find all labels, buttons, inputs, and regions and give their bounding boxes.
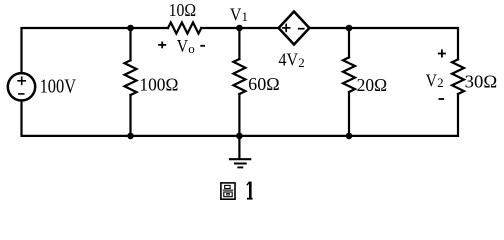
wire branch 20ohm bottom xyxy=(348,92,350,136)
node junction top at 20ohm xyxy=(346,25,353,32)
svg-text:V: V xyxy=(230,4,242,24)
label Vo plus sign xyxy=(158,42,166,49)
node junction bottom at 20ohm xyxy=(346,133,353,140)
label V2 minus sign xyxy=(439,98,445,100)
svg-text:4V: 4V xyxy=(279,50,299,70)
wire top-left segment xyxy=(22,28,169,73)
ground bar 1 xyxy=(230,158,250,160)
voltage source minus sign xyxy=(19,93,24,95)
caption character tu (figure) drawn as vector xyxy=(221,183,235,199)
svg-text:2: 2 xyxy=(298,55,305,70)
resistor 30ohm xyxy=(452,59,464,94)
caption numeral 1 xyxy=(247,182,253,199)
svg-text:o: o xyxy=(188,41,195,56)
diamond plus sign xyxy=(283,25,290,32)
voltage source 100V circle xyxy=(8,73,35,100)
svg-text:100V: 100V xyxy=(40,76,77,97)
node junction top at 100ohm xyxy=(127,25,134,32)
voltage source plus sign xyxy=(18,77,25,84)
svg-text:V: V xyxy=(177,36,188,56)
dependent source 4V2 diamond xyxy=(279,12,310,45)
label Vo minus sign xyxy=(200,45,205,47)
wire top right (diamond to right edge) xyxy=(309,28,458,59)
node V1 junction xyxy=(236,25,243,32)
ground bar 2 xyxy=(235,163,246,165)
node junction bottom at 100ohm xyxy=(127,133,134,140)
wire bottom xyxy=(22,94,459,136)
svg-text:60Ω: 60Ω xyxy=(248,74,280,94)
svg-text:1: 1 xyxy=(242,9,249,24)
wire branch 100ohm top xyxy=(129,28,131,60)
wire branch 60ohm top xyxy=(238,28,240,59)
resistor 100ohm xyxy=(125,60,137,95)
ground stem xyxy=(238,136,240,159)
resistor 10ohm (horizontal, top) xyxy=(168,23,201,34)
node junction bottom ground xyxy=(236,133,243,140)
resistor 60ohm xyxy=(233,59,245,94)
svg-text:V: V xyxy=(426,70,437,90)
label V2 plus sign xyxy=(438,50,446,58)
diamond minus sign xyxy=(299,28,304,30)
svg-text:10Ω: 10Ω xyxy=(169,0,197,20)
svg-text:20Ω: 20Ω xyxy=(357,75,388,95)
svg-text:100Ω: 100Ω xyxy=(139,75,178,95)
svg-text:2: 2 xyxy=(437,75,444,90)
svg-text:30Ω: 30Ω xyxy=(465,72,498,92)
wire branch 100ohm bottom xyxy=(129,95,131,136)
ground bar 3 xyxy=(238,166,242,168)
wire branch 60ohm bottom xyxy=(238,94,240,136)
resistor 20ohm xyxy=(343,57,355,92)
wire top middle (10ohm to diamond) xyxy=(201,27,278,29)
wire branch 20ohm top xyxy=(348,28,350,57)
